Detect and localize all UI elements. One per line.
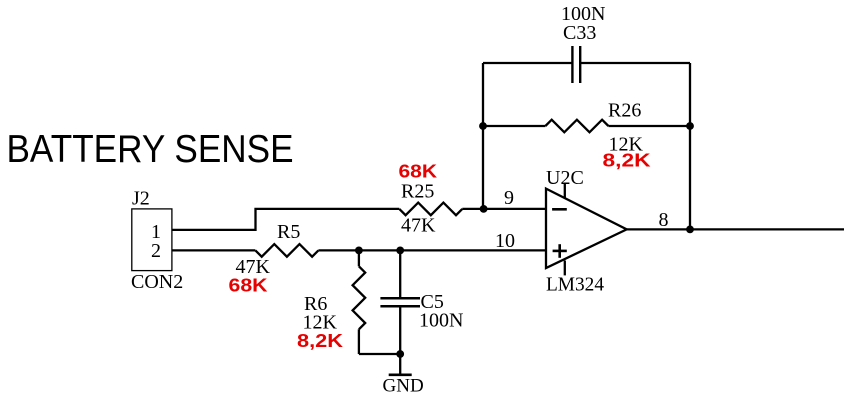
wire R26 left lead: [483, 125, 545, 127]
capacitor C5 plates: [380, 298, 420, 306]
svg-text:R26: R26: [608, 100, 641, 122]
svg-text:8: 8: [659, 209, 669, 231]
junction at C5 top: [396, 247, 404, 255]
wire C5 bottom lead: [399, 307, 401, 354]
op-amp U2C triangle: [546, 189, 627, 268]
wire R6 top lead: [358, 250, 360, 266]
svg-text:GND: GND: [383, 376, 424, 397]
wire bottom between R6 and C5/GND: [359, 353, 400, 355]
junction R26 left: [479, 122, 487, 130]
svg-text:47K: 47K: [401, 215, 436, 237]
resistor R26: [545, 120, 608, 133]
wire feedback right vertical: [689, 63, 691, 229]
svg-text:8,2K: 8,2K: [297, 331, 343, 351]
svg-text:C33: C33: [563, 22, 596, 44]
wire feedback top left to C33: [483, 62, 572, 64]
wire from J2 pin 1 to R25: [172, 209, 399, 230]
connector J2 box: [132, 209, 172, 271]
svg-text:R25: R25: [401, 181, 434, 203]
svg-text:68K: 68K: [229, 276, 268, 296]
wire R26 right lead: [608, 125, 690, 127]
svg-text:U2C: U2C: [546, 167, 584, 189]
junction R26 right: [686, 122, 694, 130]
svg-text:BATTERY SENSE: BATTERY SENSE: [7, 128, 294, 171]
op-amp top power stub: [564, 184, 566, 198]
junction at output node: [686, 226, 694, 234]
svg-text:68K: 68K: [399, 162, 438, 182]
wire R6 bottom lead: [358, 329, 360, 354]
svg-text:8,2K: 8,2K: [603, 151, 651, 171]
wire from J2 pin 2 to R5: [172, 249, 256, 251]
ground symbol: [389, 354, 412, 375]
junction at node pin9 / feedback: [480, 205, 488, 213]
wire op-amp output: [627, 228, 844, 230]
wire from R5 to op-amp pin 10: [318, 249, 546, 251]
svg-text:CON2: CON2: [131, 271, 183, 293]
wire feedback left vertical: [482, 63, 484, 209]
wire feedback top right from C33: [580, 62, 690, 64]
op-amp non-inverting input plus sign: [553, 244, 567, 258]
wire C5 top lead: [399, 250, 401, 297]
svg-text:100N: 100N: [419, 310, 463, 332]
resistor R25: [399, 203, 462, 216]
svg-text:2: 2: [151, 240, 161, 262]
op-amp bottom power stub: [564, 261, 566, 276]
resistor R6: [353, 266, 366, 329]
svg-text:J2: J2: [132, 188, 150, 210]
wire from R25 to op-amp pin 9: [462, 208, 546, 210]
junction at R6 top: [355, 247, 363, 255]
resistor R5: [255, 244, 318, 257]
junction at GND node: [396, 350, 404, 358]
svg-text:9: 9: [504, 187, 514, 209]
svg-text:R5: R5: [277, 221, 300, 243]
op-amp inverting input minus sign: [552, 208, 567, 211]
capacitor C33 plates: [572, 46, 580, 83]
svg-text:LM324: LM324: [546, 274, 604, 296]
svg-text:10: 10: [495, 230, 515, 252]
